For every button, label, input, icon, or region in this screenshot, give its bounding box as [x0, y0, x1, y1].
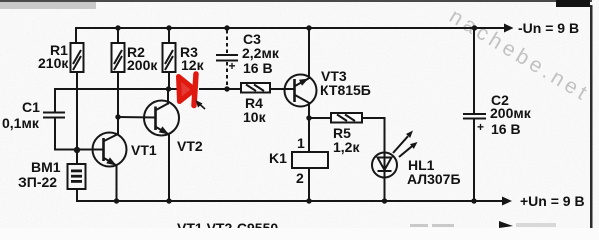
- svg-text:10к: 10к: [243, 109, 267, 125]
- top power rail -Un: [76, 27, 504, 29]
- node: C3 bottom / signal: [224, 86, 229, 91]
- svg-text:210к: 210к: [38, 55, 69, 71]
- resistor R3: [163, 43, 176, 72]
- node: C3 top junction: [224, 25, 229, 30]
- wire: R1 bottom lead: [76, 72, 78, 150]
- cut-off arrow next figure: [499, 221, 513, 228]
- svg-text:ЗП-22: ЗП-22: [18, 174, 57, 190]
- node: R2 top junction: [115, 25, 120, 30]
- annotation: black pen mark under diode: [196, 100, 203, 108]
- wire: junction to R5: [309, 117, 331, 119]
- wire: HL1 bottom lead: [384, 178, 386, 202]
- node: K1 / bottom rail: [306, 198, 311, 203]
- buzzer BM1: [68, 164, 86, 189]
- svg-text:12к: 12к: [181, 57, 205, 73]
- svg-text:VT1,VT2-С9550: VT1,VT2-С9550: [177, 220, 278, 228]
- svg-text:0,1мк: 0,1мк: [2, 115, 40, 131]
- node: R3 / VT2 collector / signal: [166, 86, 171, 91]
- svg-text:-Un = 9 В: -Un = 9 В: [518, 20, 579, 36]
- wire: VT3 emitter lead to top rail: [308, 28, 310, 78]
- resistor R4: [241, 83, 270, 93]
- svg-text:2: 2: [296, 170, 304, 186]
- wire: relay K1 to bottom rail: [308, 168, 310, 201]
- node: R3 top junction: [166, 25, 171, 30]
- annotation: red diode drawn by hand: [179, 74, 197, 106]
- transistor VT3: [285, 75, 317, 107]
- svg-text:VT2: VT2: [177, 138, 203, 154]
- wire: BM1 top lead: [76, 150, 78, 164]
- wire: R2 bottom lead: [117, 72, 119, 117]
- wire: R2/VT1 junction to VT2 base: [118, 116, 156, 119]
- svg-text:ВМ1: ВМ1: [31, 159, 61, 175]
- svg-text:+Un = 9 В: +Un = 9 В: [520, 193, 585, 209]
- bottom power rail +Un: [77, 200, 502, 202]
- scan noise texture: [0, 0, 1, 1]
- arrow: top rail -Un output: [504, 24, 514, 33]
- node: VT2 emitter / bottom rail: [166, 198, 171, 203]
- node: C2 / bottom rail: [471, 198, 476, 203]
- cut-off fragments at bottom edge: [410, 224, 428, 227]
- capacitor C1: [43, 113, 65, 118]
- capacitor C2: [463, 114, 486, 119]
- wire: signal line C1 to diode: [55, 88, 177, 90]
- relay K1: [292, 152, 328, 168]
- wire: VT3 to relay K1: [308, 118, 310, 152]
- svg-text:1: 1: [297, 135, 305, 151]
- resistor R5: [331, 113, 362, 123]
- wire: VT1 emitter lead: [116, 166, 118, 201]
- node: VT3 emitter / top rail: [306, 25, 311, 30]
- wire: R3 bottom lead: [168, 72, 170, 89]
- transistor VT1: [93, 133, 127, 167]
- svg-text:+: +: [229, 59, 236, 73]
- capacitor C3 (dashed optional): [216, 30, 238, 88]
- wire: R2 top lead: [117, 28, 119, 43]
- watermark nachebe.net: [445, 5, 594, 107]
- svg-text:C1: C1: [22, 99, 40, 115]
- svg-text:200мк: 200мк: [490, 105, 532, 121]
- wire: VT3 collector lead: [308, 103, 310, 118]
- wire: C2 top lead: [473, 28, 475, 113]
- resistor R1: [71, 43, 84, 72]
- svg-text:АЛ307Б: АЛ307Б: [407, 171, 461, 187]
- node: HL1 / bottom rail: [382, 198, 387, 203]
- wire: R3 top lead: [168, 28, 170, 43]
- node: C2 top junction: [472, 25, 477, 30]
- wire: BM1 bottom lead: [76, 189, 78, 201]
- scan edge artifacts top: [0, 0, 592, 2]
- node: C1 / R1 / BM1 / VT1 base: [74, 147, 80, 153]
- svg-text:VT1: VT1: [131, 142, 157, 158]
- svg-text:16 В: 16 В: [243, 60, 273, 76]
- wire: rail corner down to R1: [75, 28, 77, 43]
- svg-text:КТ815Б: КТ815Б: [320, 82, 371, 98]
- LED arrow tips: [406, 131, 413, 138]
- node: R2 / VT1 collector / VT2 base: [115, 114, 120, 119]
- wire: diode to R4: [200, 88, 241, 90]
- arrow: bottom rail +Un output: [502, 197, 512, 206]
- svg-text:+: +: [477, 120, 484, 134]
- wire: R4 to VT3 base: [270, 88, 295, 90]
- resistor R2: [112, 43, 125, 72]
- svg-text:K1: K1: [269, 150, 287, 166]
- node: VT3 collector / R5: [306, 115, 311, 120]
- node: VT1 emitter / bottom rail: [114, 198, 119, 203]
- wire: R5 to HL1: [362, 118, 385, 153]
- wire: VT1 collector lead: [117, 117, 119, 134]
- wire: C1 bottom lead to VT1 base: [55, 118, 104, 150]
- wire: C2 bottom lead: [473, 119, 475, 201]
- wire: VT2 collector lead: [167, 89, 169, 104]
- svg-text:2,2мк: 2,2мк: [242, 45, 280, 61]
- svg-text:16 В: 16 В: [491, 121, 521, 137]
- svg-text:200к: 200к: [127, 57, 158, 73]
- LED HL1: [372, 136, 413, 177]
- wire: C1 top lead: [54, 89, 56, 112]
- svg-text:1,2к: 1,2к: [333, 139, 360, 155]
- transistor VT2: [144, 101, 179, 136]
- wire: VT2 emitter lead: [168, 135, 170, 201]
